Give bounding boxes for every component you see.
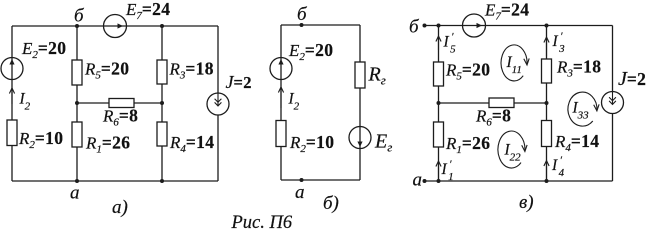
svg-text:в): в) xyxy=(519,192,534,213)
junction mid left (v) xyxy=(437,101,441,105)
current arrow I1' (v) xyxy=(436,161,441,180)
wire a: bottom xyxy=(12,180,218,182)
resistor R4 (v) xyxy=(542,121,552,147)
svg-text:R5=20: R5=20 xyxy=(84,59,129,82)
svg-text:R6=8: R6=8 xyxy=(102,106,138,129)
current arrow I4' (v) xyxy=(544,161,549,181)
svg-text:J=2: J=2 xyxy=(226,72,252,92)
resistor R2 (b) xyxy=(276,121,286,147)
svg-text:E2=20: E2=20 xyxy=(21,38,66,61)
resistor R5 (a) xyxy=(72,60,82,85)
resistor R6 (v) xyxy=(489,98,514,108)
svg-text:R3=18: R3=18 xyxy=(169,59,214,82)
svg-text:а): а) xyxy=(112,197,128,218)
svg-text:E7=24: E7=24 xyxy=(125,0,170,22)
wire b: top xyxy=(281,24,360,26)
resistor R3 (a) xyxy=(157,60,167,84)
junction top R5 (v) xyxy=(437,24,441,28)
mesh current loop I11 (v) xyxy=(501,45,529,81)
svg-text:R1=26: R1=26 xyxy=(445,133,490,156)
svg-text:J=2: J=2 xyxy=(618,68,646,90)
node b junction (a) xyxy=(75,24,79,28)
wire a: right top segment xyxy=(217,26,219,93)
svg-text:б: б xyxy=(297,4,308,25)
svg-text:R4=14: R4=14 xyxy=(169,132,214,155)
svg-text:E2=20: E2=20 xyxy=(288,40,333,63)
wire a: right bottom segment xyxy=(217,115,219,181)
svg-text:R5=20: R5=20 xyxy=(445,60,490,83)
wire v: bottom xyxy=(425,180,613,182)
current source J (a) xyxy=(207,93,229,115)
terminal b dot (v) xyxy=(423,24,427,28)
wire b: bottom xyxy=(281,179,360,181)
wire v: branch R3-R4 xyxy=(546,26,548,182)
svg-text:Рис. П6: Рис. П6 xyxy=(231,213,293,233)
wire v: top xyxy=(425,25,613,27)
node a junction left (a) xyxy=(75,179,79,183)
junction top R3 (v) xyxy=(545,24,549,28)
svg-text:E7=24: E7=24 xyxy=(484,0,529,23)
current arrow I2 (a) xyxy=(9,88,14,104)
resistor R4 (a) xyxy=(157,122,167,146)
svg-text:R3=18: R3=18 xyxy=(556,57,601,80)
current arrow I2 (b) xyxy=(278,87,283,108)
voltage source E2 (b) xyxy=(270,58,292,80)
junction bottom R4 (a) xyxy=(160,179,164,183)
resistor R6 (a) xyxy=(109,99,134,108)
voltage source E7 (v) xyxy=(463,14,486,37)
svg-text:R1=26: R1=26 xyxy=(85,133,130,156)
wire a: top xyxy=(12,25,218,27)
voltage source E2 (a) xyxy=(1,58,23,80)
wire b: right xyxy=(359,25,361,180)
current arrow I5' (v) xyxy=(436,36,441,50)
junction mid right (v) xyxy=(545,101,549,105)
terminal a dot (v) xyxy=(423,179,427,183)
junction bottom R1 (v) xyxy=(437,179,441,183)
current arrow I3' (v) xyxy=(544,37,549,56)
junction mid left (a) xyxy=(75,101,79,105)
resistor R1 (a) xyxy=(72,122,82,147)
wire v: middle R6 xyxy=(439,102,547,104)
voltage source Eg (b) xyxy=(349,127,371,149)
wire b: left xyxy=(280,25,282,180)
resistor R3 (v) xyxy=(542,59,552,83)
wire a: left xyxy=(11,26,13,181)
svg-text:б: б xyxy=(74,6,85,27)
current source J (v) xyxy=(602,92,624,114)
wire a: middle R6 xyxy=(77,102,162,104)
svg-text:а: а xyxy=(413,170,423,191)
wire v: right bottom segment xyxy=(612,114,614,182)
svg-text:R6=8: R6=8 xyxy=(475,106,511,129)
svg-text:б): б) xyxy=(323,193,339,214)
wire a: branch R3-R4 xyxy=(161,26,163,181)
mesh current loop I22 (v) xyxy=(498,131,527,168)
voltage source E7 (a) xyxy=(104,15,127,38)
resistor R2 (a) xyxy=(7,120,17,146)
svg-text:а: а xyxy=(70,183,80,204)
svg-text:а: а xyxy=(295,182,305,203)
wire v: right top segment xyxy=(612,26,614,92)
junction mid right (a) xyxy=(160,101,164,105)
wire a: branch R5-R1 xyxy=(76,26,78,181)
svg-text:R2=10: R2=10 xyxy=(18,128,63,151)
resistor Rg (b) xyxy=(355,62,365,88)
mesh current loop I33 (v) xyxy=(568,92,599,126)
resistor R1 (v) xyxy=(434,122,444,147)
svg-text:R4=14: R4=14 xyxy=(554,131,599,154)
svg-text:R2=10: R2=10 xyxy=(289,132,334,155)
node a junction (b) xyxy=(300,178,304,182)
node b junction (b) xyxy=(300,23,304,27)
resistor R5 (v) xyxy=(434,62,444,86)
svg-text:б: б xyxy=(409,17,420,38)
junction top R3 (a) xyxy=(160,24,164,28)
wire v: branch R5-R1 xyxy=(438,26,440,182)
junction bottom R4 (v) xyxy=(545,179,549,183)
